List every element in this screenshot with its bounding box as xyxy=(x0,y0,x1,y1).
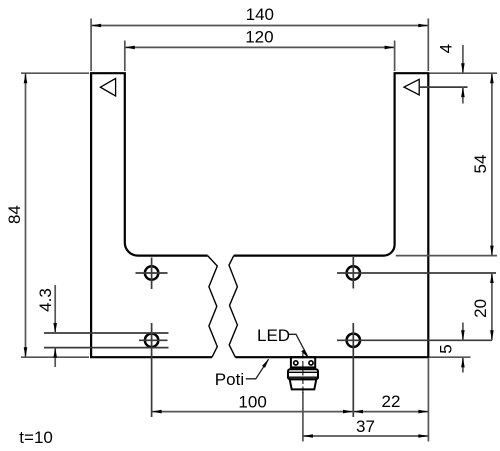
break zigzag left xyxy=(208,256,218,358)
connector screw left xyxy=(294,361,298,365)
center line vertical, hole upper-left xyxy=(151,258,153,290)
svg-text:t=10: t=10 xyxy=(19,428,53,447)
dimension 140 xyxy=(91,24,428,28)
hole lower-right xyxy=(347,334,360,347)
break zigzag right xyxy=(229,256,237,358)
extension line bottom edge right (dim 5) xyxy=(430,356,471,358)
svg-text:4: 4 xyxy=(437,44,456,53)
dimension 54 xyxy=(490,73,494,255)
extension line right edge down (dims 22, 37) xyxy=(427,359,429,442)
center line horizontal, hole lower-left xyxy=(139,339,168,341)
leader Poti xyxy=(246,359,269,379)
dimension 100 xyxy=(152,410,353,414)
center line vertical, hole lower-right (extends to dim 22) xyxy=(352,323,354,417)
svg-text:22: 22 xyxy=(382,392,401,411)
svg-text:140: 140 xyxy=(246,5,274,24)
hole tangent line upper (dim 4.3 reference) xyxy=(44,332,169,334)
hole upper-left xyxy=(145,266,158,279)
center line vertical, hole lower-left (extends to dim 100) xyxy=(151,323,153,417)
dimension 4 (right top) xyxy=(461,45,465,104)
extension line right outer edge up (dim 140) xyxy=(427,19,429,72)
connector collar xyxy=(288,369,318,379)
leader LED xyxy=(289,334,309,358)
hole lower-left xyxy=(145,334,158,347)
svg-text:20: 20 xyxy=(471,299,490,318)
dimension 4.3 xyxy=(53,285,57,367)
center line horizontal, hole lower-right (extends to dim 20) xyxy=(337,339,492,341)
extension line top edge left (dim 84) xyxy=(21,72,89,74)
extension line slot bottom right (dim 54) xyxy=(396,255,497,257)
svg-text:37: 37 xyxy=(356,417,375,436)
body outline left arm xyxy=(91,73,428,357)
connector center line xyxy=(302,353,304,395)
svg-text:120: 120 xyxy=(245,28,273,47)
dimension 20 xyxy=(490,273,494,340)
extension line left outer edge up (dim 140) xyxy=(90,19,92,72)
svg-text:54: 54 xyxy=(471,155,490,174)
svg-text:100: 100 xyxy=(238,393,266,412)
svg-text:84: 84 xyxy=(5,205,24,224)
triangle marker left arm xyxy=(100,78,115,96)
body outline right arm xyxy=(234,73,428,357)
center line vertical, hole upper-right xyxy=(352,257,354,289)
extension line right inner edge up (dim 120) xyxy=(394,41,396,72)
triangle marker right arm xyxy=(404,79,419,95)
connector screw right xyxy=(309,361,313,365)
hole tangent line lower (dim 4.3 reference) xyxy=(44,347,169,349)
dimension 120 xyxy=(125,46,395,50)
svg-text:Poti: Poti xyxy=(215,370,244,389)
optical axis line right xyxy=(419,86,467,88)
hole upper-right xyxy=(347,266,360,279)
extension line left inner edge up (dim 120) xyxy=(124,41,126,72)
extension line top edge right (dims 4, 54) xyxy=(430,72,498,74)
extension line connector axis down (dim 37) xyxy=(302,392,304,442)
center line horizontal, hole upper-left xyxy=(136,272,168,274)
dimension 5 xyxy=(461,323,465,373)
center line horizontal, hole upper-right (extends to dim 20) xyxy=(337,272,496,274)
svg-text:5: 5 xyxy=(437,344,456,353)
svg-text:4.3: 4.3 xyxy=(36,288,55,312)
connector flange xyxy=(291,357,315,367)
connector lower trapezoid xyxy=(290,379,317,389)
dimension 22 xyxy=(353,410,428,414)
dimension 37 xyxy=(303,434,429,438)
extension line bottom edge left (dim 84) xyxy=(21,356,89,358)
svg-text:LED: LED xyxy=(257,326,290,345)
dimension 84 xyxy=(24,73,28,357)
